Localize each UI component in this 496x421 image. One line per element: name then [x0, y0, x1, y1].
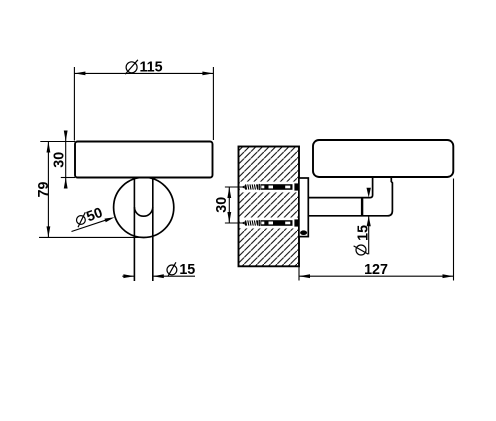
dimension 79 extension bottom	[39, 236, 146, 238]
dimension D15 side line bottom	[368, 216, 370, 254]
dimension D115 line	[74, 72, 213, 74]
leader D50 line	[72, 220, 108, 232]
dimension 30 left extension top	[40, 141, 75, 143]
mounting plate side view	[299, 178, 308, 237]
dimension 127 extension right	[453, 179, 455, 281]
svg-text:30: 30	[52, 152, 68, 168]
svg-text:15: 15	[179, 262, 195, 278]
leader D50 diameter symbol	[77, 212, 86, 227]
dimension D15 side arrow top	[367, 188, 371, 198]
dimension 79 line	[47, 142, 49, 238]
wall face extension below (127 dim left extension)	[298, 266, 300, 280]
dish side view	[313, 140, 453, 177]
set screw	[300, 230, 307, 235]
screw 1 with wall anchor	[241, 183, 299, 190]
screw 2 white backing	[240, 218, 299, 229]
screw 1 white backing	[240, 182, 299, 193]
dimension 30 left line	[65, 131, 67, 189]
wall section rectangle	[239, 147, 300, 267]
dimension D15 front arrow left	[123, 274, 134, 278]
dimension D115 extension right	[212, 67, 214, 140]
wall hatching	[239, 147, 300, 267]
front view: post left edge	[133, 178, 135, 282]
dimension D15 front line left	[122, 275, 134, 277]
svg-text:50: 50	[84, 205, 104, 225]
front view: slot arc	[134, 207, 152, 216]
dimension D15 front diameter symbol	[167, 262, 177, 276]
front view: post right edge	[152, 178, 154, 282]
dimension 30 screws extension top	[225, 186, 244, 188]
svg-text:30: 30	[214, 197, 230, 213]
svg-text:15: 15	[356, 225, 372, 241]
dimension 30 screws arrow bottom	[227, 212, 231, 223]
front view: wall plate circle	[114, 177, 174, 237]
dimension D115 diameter symbol	[125, 60, 138, 74]
dimension 30 screws arrow top	[227, 187, 231, 198]
dimension D15 side arrow bottom	[367, 216, 371, 226]
dimension 127 arrow left	[299, 274, 310, 278]
dimension 127 line	[299, 275, 454, 277]
wall section outline	[239, 147, 300, 267]
dimension 79 arrow top	[47, 142, 51, 153]
front view: dish rim rectangle	[75, 142, 213, 178]
arm post joint line	[361, 198, 363, 216]
dimension D15 front line right	[153, 275, 195, 277]
dimension D115 arrow right	[202, 72, 213, 76]
dimension D115 arrow left	[74, 72, 85, 76]
dimension 30 screws line	[228, 187, 230, 223]
dimension D15 side diameter symbol	[354, 245, 369, 255]
dimension 30 left extension bottom	[61, 177, 75, 179]
svg-text:127: 127	[364, 262, 388, 278]
dimension 127 arrow right	[443, 274, 454, 278]
leader D50 arrowhead	[105, 217, 115, 222]
dimension 79 arrow bottom	[47, 226, 51, 237]
dimension 30 screws extension bottom	[225, 222, 244, 224]
svg-text:115: 115	[139, 59, 162, 75]
svg-text:79: 79	[36, 182, 52, 198]
dimension 30 left arrow bottom	[64, 178, 68, 189]
dimension 30 left arrow top	[64, 131, 68, 142]
dimension D115 extension left	[73, 67, 75, 141]
screw 2 with wall anchor	[241, 219, 299, 226]
dimension D15 front arrow right	[153, 274, 164, 278]
arm and post outline	[308, 177, 392, 216]
